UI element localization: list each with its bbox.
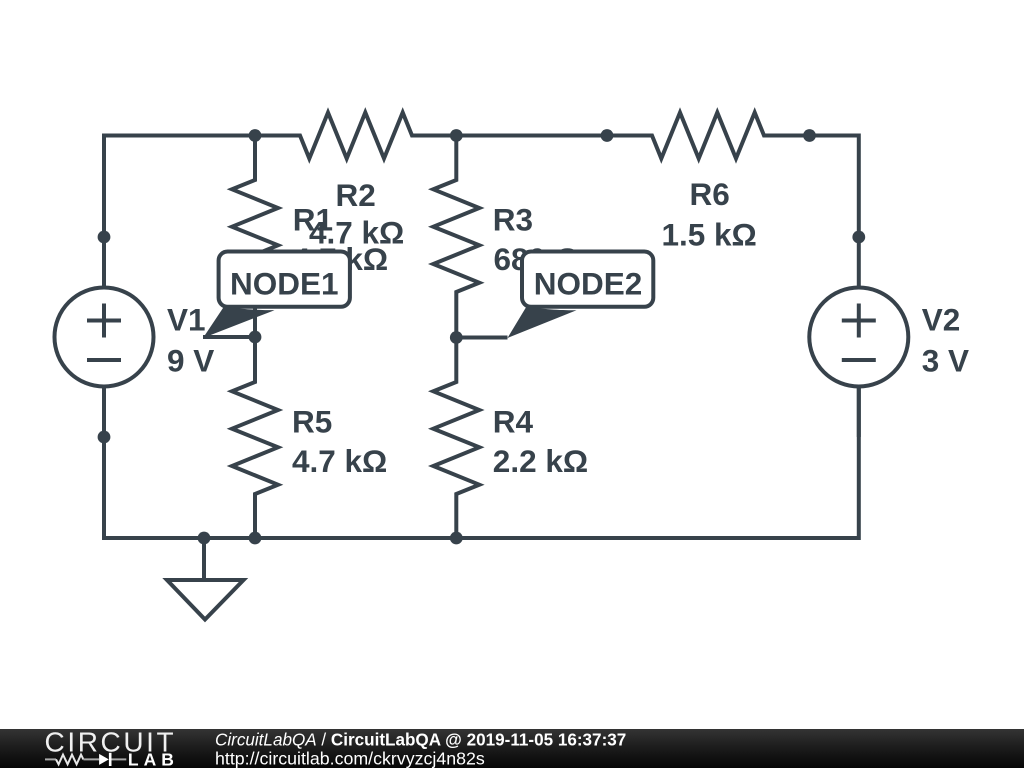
svg-text:http://circuitlab.com/ckrvyzcj: http://circuitlab.com/ckrvyzcj4n82s — [215, 749, 485, 768]
svg-text:4.7 kΩ: 4.7 kΩ — [309, 215, 404, 251]
junction dot R5 bottom — [249, 532, 262, 545]
resistor R4 — [433, 337, 588, 538]
node NODE2 flag — [456, 252, 653, 339]
junction dot NODE1 / R1-R5 — [249, 331, 262, 344]
junction dot V1 bottom — [98, 431, 111, 444]
svg-text:R2: R2 — [336, 177, 376, 213]
svg-text:V1: V1 — [167, 302, 206, 338]
junction dot NODE2 / R3-R4 — [450, 331, 463, 344]
junction dot V2 top — [852, 231, 865, 244]
svg-text:NODE2: NODE2 — [534, 266, 643, 302]
junction dot R6 left — [601, 129, 614, 142]
footer bar — [0, 729, 1024, 768]
resistor R6 — [607, 113, 810, 253]
wire bottom-middle (R5 bottom to R4 bottom) — [255, 536, 456, 540]
voltage source V2 — [809, 237, 969, 437]
svg-text:R4: R4 — [493, 404, 534, 440]
svg-text:4.7 kΩ: 4.7 kΩ — [292, 443, 387, 479]
svg-text:R3: R3 — [493, 202, 533, 238]
svg-text:3 V: 3 V — [922, 343, 969, 379]
resistor R3 — [433, 136, 580, 338]
wire top-middle (R2 right to R6 left) — [456, 134, 607, 138]
svg-text:V2: V2 — [922, 302, 961, 338]
svg-text:1.5 kΩ: 1.5 kΩ — [662, 216, 757, 252]
svg-text:LAB: LAB — [128, 749, 179, 768]
wire top-right L (R6 right to V2 top) — [810, 136, 859, 238]
svg-text:2.2 kΩ: 2.2 kΩ — [493, 443, 588, 479]
svg-text:R6: R6 — [690, 176, 730, 212]
junction dot R2 left / R1 top — [249, 129, 262, 142]
wire bottom (ground tap to R5 bottom) — [204, 536, 255, 540]
junction dot ground tap — [198, 532, 211, 545]
wire top-left L (V1 top to R2 left) — [104, 136, 255, 238]
wire bottom-right L (R4 bottom to V2 bottom) — [456, 387, 859, 539]
junction dot R6 right — [803, 129, 816, 142]
wire bottom-left L (V1 bottom to ground tap) — [104, 437, 204, 538]
junction dot V1 top — [98, 231, 111, 244]
ground — [167, 538, 244, 620]
voltage source V1 — [55, 237, 215, 437]
junction dot R4 bottom — [450, 532, 463, 545]
svg-text:9 V: 9 V — [167, 343, 214, 379]
resistor R2 — [255, 113, 456, 251]
CircuitLab logo symbol (resistor + diode) — [45, 753, 126, 766]
junction dot R2 right / R3 top — [450, 129, 463, 142]
resistor R5 — [232, 337, 387, 538]
svg-text:CircuitLabQA / CircuitLabQA @: CircuitLabQA / CircuitLabQA @ 2019-11-05… — [215, 730, 626, 749]
svg-text:R5: R5 — [292, 404, 332, 440]
resistor R1 — [232, 136, 388, 338]
node NODE1 flag — [203, 252, 350, 339]
svg-text:NODE1: NODE1 — [230, 266, 339, 302]
